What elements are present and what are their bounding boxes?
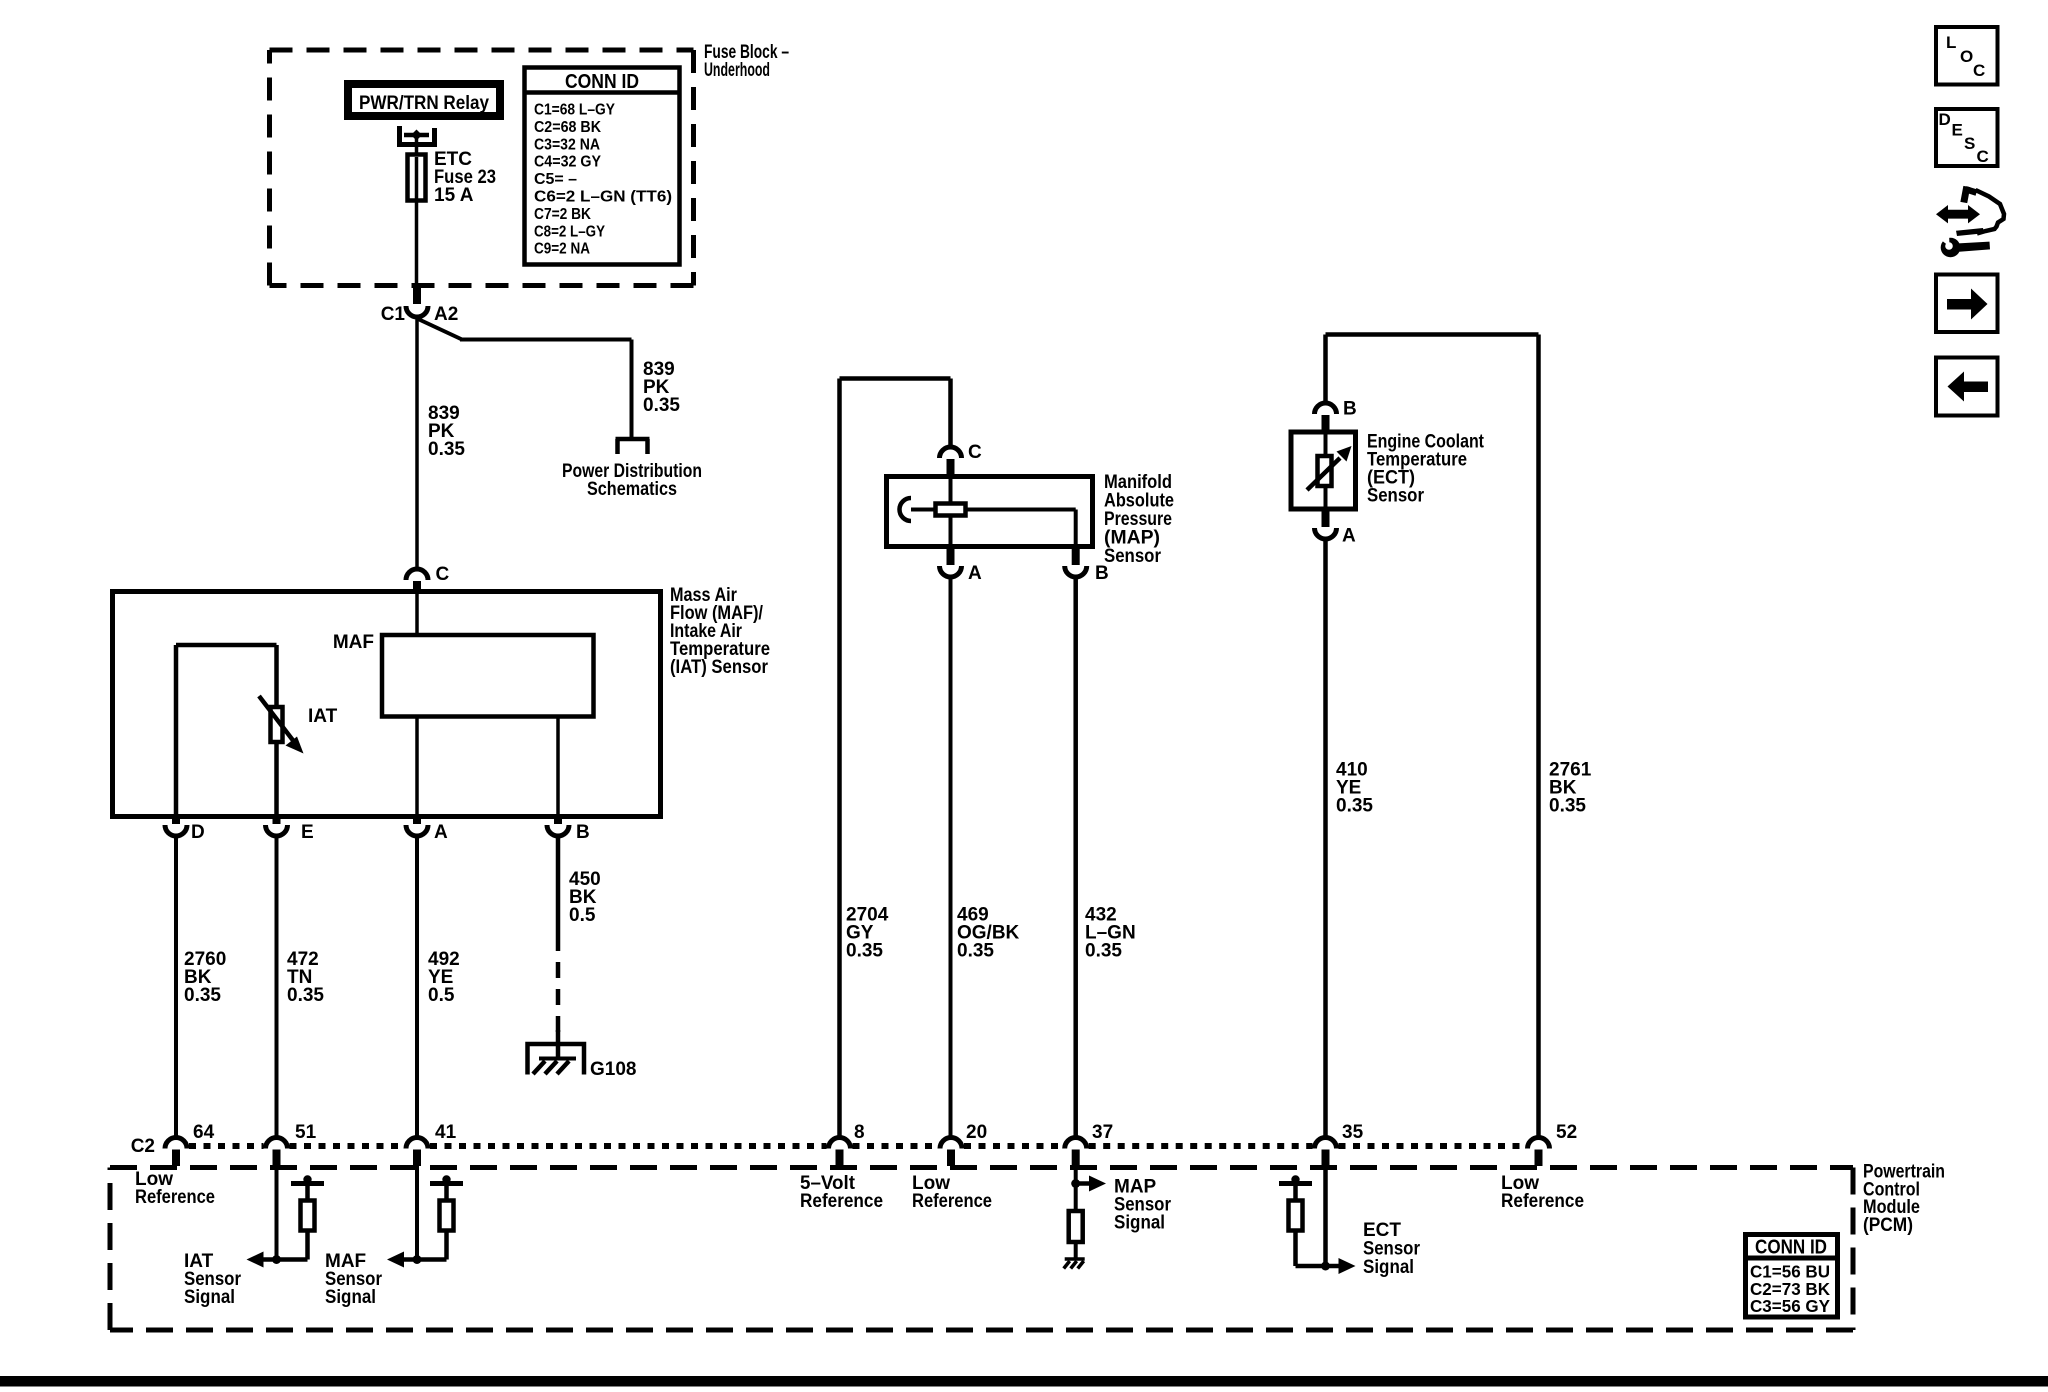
svg-text:G108: G108 [590, 1059, 636, 1080]
svg-text:A: A [434, 822, 448, 843]
svg-text:Sensor: Sensor [1367, 486, 1425, 507]
svg-text:20: 20 [966, 1122, 987, 1143]
svg-text:Reference: Reference [135, 1187, 215, 1208]
svg-text:Signal: Signal [1363, 1257, 1414, 1278]
svg-text:0.5: 0.5 [569, 905, 596, 926]
svg-text:E: E [1952, 121, 1963, 140]
svg-text:B: B [1095, 563, 1109, 584]
svg-text:15 A: 15 A [434, 185, 474, 206]
svg-text:0.35: 0.35 [1336, 796, 1373, 817]
svg-text:CONN ID: CONN ID [1755, 1237, 1827, 1259]
svg-text:0.35: 0.35 [287, 985, 324, 1006]
svg-text:CONN ID: CONN ID [565, 71, 639, 93]
svg-text:0.35: 0.35 [846, 941, 883, 962]
svg-text:C: C [1973, 61, 1985, 80]
svg-text:C6=2 L–GN (TT6): C6=2 L–GN (TT6) [534, 189, 672, 206]
svg-text:C1=68 L–GY: C1=68 L–GY [534, 102, 615, 119]
svg-text:C3=56 GY: C3=56 GY [1750, 1296, 1830, 1316]
svg-text:0.35: 0.35 [1085, 941, 1122, 962]
svg-text:Signal: Signal [325, 1287, 376, 1308]
svg-text:C5= –: C5= – [534, 171, 577, 188]
svg-text:0.35: 0.35 [957, 941, 994, 962]
svg-text:C3=32 NA: C3=32 NA [534, 136, 600, 153]
svg-text:E: E [301, 822, 314, 843]
svg-text:C: C [436, 564, 450, 585]
svg-text:O: O [1960, 47, 1973, 66]
svg-text:B: B [576, 822, 590, 843]
svg-text:Signal: Signal [184, 1287, 235, 1308]
svg-text:8: 8 [854, 1122, 865, 1143]
svg-text:0.35: 0.35 [184, 985, 221, 1006]
svg-text:C2: C2 [131, 1136, 155, 1157]
svg-text:D: D [1939, 110, 1951, 129]
svg-text:(PCM): (PCM) [1863, 1215, 1913, 1236]
svg-text:64: 64 [193, 1122, 215, 1143]
svg-text:C: C [1977, 147, 1989, 166]
svg-text:C4=32 GY: C4=32 GY [534, 154, 601, 171]
svg-text:L: L [1946, 33, 1956, 52]
svg-text:37: 37 [1092, 1122, 1113, 1143]
svg-text:D: D [191, 822, 205, 843]
svg-text:PWR/TRN Relay: PWR/TRN Relay [359, 93, 489, 114]
svg-text:52: 52 [1556, 1122, 1577, 1143]
svg-text:41: 41 [435, 1122, 457, 1143]
svg-text:(IAT) Sensor: (IAT) Sensor [670, 657, 769, 678]
svg-text:IAT: IAT [308, 706, 338, 727]
svg-text:C7=2 BK: C7=2 BK [534, 206, 591, 223]
svg-text:Reference: Reference [1501, 1191, 1584, 1212]
svg-text:51: 51 [295, 1122, 317, 1143]
svg-text:B: B [1343, 399, 1357, 420]
svg-text:0.5: 0.5 [428, 985, 455, 1006]
svg-text:C1: C1 [381, 304, 406, 325]
svg-text:Schematics: Schematics [587, 479, 677, 500]
svg-text:Reference: Reference [800, 1191, 883, 1212]
svg-text:S: S [1964, 134, 1975, 153]
svg-text:C9=2 NA: C9=2 NA [534, 241, 590, 258]
svg-text:A: A [968, 563, 982, 584]
svg-text:A: A [1342, 526, 1356, 547]
svg-text:C2=68 BK: C2=68 BK [534, 119, 601, 136]
svg-text:A2: A2 [434, 304, 458, 325]
svg-text:Signal: Signal [1114, 1213, 1165, 1234]
svg-text:0.35: 0.35 [1549, 796, 1586, 817]
svg-text:35: 35 [1342, 1122, 1364, 1143]
svg-text:0.35: 0.35 [428, 439, 465, 460]
svg-text:Reference: Reference [912, 1191, 992, 1212]
svg-text:Sensor: Sensor [1104, 546, 1162, 567]
svg-text:C8=2 L–GY: C8=2 L–GY [534, 223, 605, 240]
svg-text:0.35: 0.35 [643, 395, 680, 416]
svg-text:MAF: MAF [333, 632, 374, 653]
svg-text:Underhood: Underhood [704, 60, 770, 81]
svg-text:C: C [968, 442, 982, 463]
